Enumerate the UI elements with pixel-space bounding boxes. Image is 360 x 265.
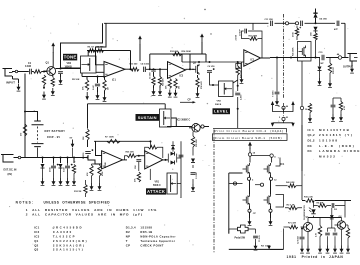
svg-text:2SK30A(GR): 2SK30A(GR) xyxy=(53,243,86,247)
resistor R2 xyxy=(42,75,45,85)
svg-text:R12 68K: R12 68K xyxy=(170,51,179,53)
ground sw col1 xyxy=(249,218,251,222)
svg-text:L.E.D (RED): L.E.D (RED) xyxy=(319,144,355,148)
wire D6 stub xyxy=(60,158,62,164)
wire right sub link xyxy=(333,97,341,99)
wire C5 down xyxy=(153,72,155,88)
resistor R37 xyxy=(318,204,327,208)
svg-text:JRC4558DD: JRC4558DD xyxy=(53,226,83,230)
svg-text:1S1588: 1S1588 xyxy=(319,139,339,143)
svg-text:2SC2240(GR): 2SC2240(GR) xyxy=(53,239,88,243)
svg-text:C11 1/50: C11 1/50 xyxy=(265,19,274,21)
wire IC2 fb outer xyxy=(242,31,263,58)
ground R25a xyxy=(99,183,101,187)
capacitor C20 xyxy=(300,237,305,239)
box pcb sw-1 xyxy=(213,134,288,141)
potentiometer VR3 LEVEL xyxy=(219,81,234,97)
svg-text:C5 1/50: C5 1/50 xyxy=(150,72,152,79)
svg-text:470: 470 xyxy=(19,133,22,136)
wire R16 stems xyxy=(197,75,199,90)
ground R35 xyxy=(340,114,342,118)
svg-text:R5 10K: R5 10K xyxy=(72,79,80,81)
label TONE xyxy=(63,54,77,61)
svg-text:R26 10K: R26 10K xyxy=(126,151,135,153)
resistor R11 xyxy=(131,68,139,72)
svg-text:(C ): (C ) xyxy=(112,79,116,82)
wire power bus xyxy=(14,157,88,159)
wire C21 stems xyxy=(328,228,336,232)
wire right col 181 xyxy=(180,141,182,198)
wire jack2 sleeve xyxy=(351,61,353,66)
svg-text:Pedal SW: Pedal SW xyxy=(235,238,246,240)
svg-text:R7 2.2M: R7 2.2M xyxy=(288,223,296,225)
node pin 6 xyxy=(233,182,236,185)
junction fb node xyxy=(150,140,152,142)
svg-text:UNLESS OTHERWISE SPECIFIED: UNLESS OTHERWISE SPECIFIED xyxy=(44,201,111,205)
node pin 5b xyxy=(260,183,263,186)
svg-text:CP: CP xyxy=(188,100,192,102)
wire U1b fb loop xyxy=(276,158,281,167)
capacitor C18 xyxy=(331,105,336,107)
svg-text:Q1: Q1 xyxy=(34,239,38,243)
node bus pin 1 xyxy=(295,22,298,25)
junction R18 bus xyxy=(237,61,239,63)
label LEVEL xyxy=(213,108,231,114)
svg-text:D1,2: D1,2 xyxy=(308,139,315,143)
wire D1 stems xyxy=(319,58,321,79)
svg-text:C6 1/50: C6 1/50 xyxy=(208,66,216,68)
svg-text:CHECK POINT: CHECK POINT xyxy=(140,243,163,247)
svg-text:D1,3,4: D1,3,4 xyxy=(126,226,136,230)
svg-text:EXT. DC. IN: EXT. DC. IN xyxy=(4,169,17,172)
wire U1d fb loop xyxy=(276,195,284,208)
label SUSTAIN xyxy=(136,114,160,121)
svg-text:4558D: 4558D xyxy=(104,162,107,168)
svg-text:1/50: 1/50 xyxy=(311,32,313,36)
resistor R4 xyxy=(51,78,54,87)
node CP arrow xyxy=(193,101,196,103)
wire C8 down xyxy=(138,162,140,171)
svg-text:1M: 1M xyxy=(107,87,109,90)
wire R36 stub xyxy=(85,180,87,197)
node bus pin 3 xyxy=(285,22,288,25)
svg-text:0.47/50: 0.47/50 xyxy=(82,153,85,159)
ground R14 xyxy=(169,90,171,94)
supply arrow Q1 collector xyxy=(52,45,54,53)
svg-text:NP: NP xyxy=(321,63,325,65)
capacitor C22 xyxy=(333,233,338,235)
junction C6 top xyxy=(209,61,211,63)
resistor R28 xyxy=(137,172,140,182)
wire U1d out xyxy=(276,185,288,187)
resistor R33 xyxy=(328,63,331,73)
junction power node D6 xyxy=(60,157,62,159)
wire R1 to Q1 base xyxy=(42,71,47,73)
junction feedback node stage1 xyxy=(130,68,132,70)
svg-text:D3: D3 xyxy=(308,144,312,148)
resistor R6 xyxy=(88,49,95,53)
junction C20 top xyxy=(301,228,303,230)
svg-text:4.7K: 4.7K xyxy=(315,232,318,237)
resistor R15 xyxy=(174,79,177,89)
wire pin13 stem xyxy=(283,109,285,111)
wire gate row 1 xyxy=(229,183,243,185)
transistor Q3 xyxy=(192,124,200,132)
junction diode node xyxy=(165,159,167,161)
ground Q6 xyxy=(341,246,343,250)
box around Q4 xyxy=(298,42,312,62)
ext dc jack xyxy=(1,155,14,163)
wire stage1 output xyxy=(125,68,133,70)
ground R15 xyxy=(175,90,177,94)
transistor Q5 xyxy=(303,222,312,231)
ground R33 xyxy=(329,80,331,84)
junction C8 node xyxy=(138,155,140,157)
svg-text:R31 100K: R31 100K xyxy=(293,47,295,56)
node pin 4 xyxy=(270,154,273,157)
diode D5b xyxy=(191,159,195,163)
node pin box IC2 xyxy=(236,64,241,69)
resistor R35 xyxy=(339,102,342,111)
wire Q1 output row xyxy=(56,68,81,70)
ground C22 xyxy=(334,246,336,250)
wire feedback bus stage1 xyxy=(87,50,131,52)
resistor R18 xyxy=(236,66,239,75)
wire rail to switch xyxy=(229,229,238,234)
svg-text:R16 47K: R16 47K xyxy=(200,81,203,89)
ground Q5 xyxy=(307,246,309,250)
svg-text:Q2: Q2 xyxy=(34,243,38,247)
node tip contact xyxy=(15,70,17,72)
svg-text:R12 1M: R12 1M xyxy=(74,191,82,193)
svg-text:Q1,2: Q1,2 xyxy=(308,133,316,137)
wire R46 stems xyxy=(347,225,349,246)
wire C14 stub xyxy=(67,158,69,164)
ground R34 xyxy=(309,115,311,119)
svg-text:Tantalume Capacitor: Tantalume Capacitor xyxy=(140,239,175,243)
wire C2 down xyxy=(60,74,62,77)
supply arrow into bus xyxy=(86,92,88,97)
capacitor C9 xyxy=(245,29,247,34)
wire bias box right xyxy=(205,54,207,62)
svg-text:50K B: 50K B xyxy=(215,104,222,106)
svg-text:R5 47K: R5 47K xyxy=(317,202,324,205)
wire CP row xyxy=(180,101,193,103)
wire C4 to IC1b xyxy=(146,68,168,70)
svg-text:NP: NP xyxy=(126,234,131,238)
wire bottom rail right xyxy=(283,229,285,250)
wire D3b stems xyxy=(172,141,174,151)
dash-dot board boundary left xyxy=(213,130,215,254)
svg-text:TL022CP: TL022CP xyxy=(53,234,76,238)
ground R13 xyxy=(159,88,161,92)
ground R2 xyxy=(43,92,45,96)
wire Q3 chain xyxy=(192,147,194,184)
svg-text:R17 10M: R17 10M xyxy=(249,36,258,38)
svg-text:CP: CP xyxy=(253,213,257,215)
node connector 12 xyxy=(300,106,303,109)
wire corner to TONE network xyxy=(61,23,103,68)
speck 1 xyxy=(204,9,205,10)
capacitor C16 T xyxy=(275,92,280,94)
wire R26 to IC3b xyxy=(136,155,144,157)
svg-text:IC1: IC1 xyxy=(281,163,285,166)
mosfet U1c xyxy=(243,194,250,206)
svg-text:C2 0.082: C2 0.082 xyxy=(297,236,299,244)
diode D1 clamp xyxy=(318,67,322,71)
svg-text:MC14007UB: MC14007UB xyxy=(319,128,350,132)
wire R3a top xyxy=(86,77,88,80)
resistor R3a xyxy=(85,80,88,91)
jfet Q2 xyxy=(192,64,199,75)
diode D4 lambda bottom xyxy=(313,27,317,31)
ground R41 xyxy=(73,178,75,182)
wire C13 stub xyxy=(53,158,55,164)
svg-text:2SA1015(Y): 2SA1015(Y) xyxy=(53,248,84,252)
diode D3b xyxy=(171,146,175,150)
op-amp IC3a xyxy=(102,151,123,169)
junction R2 foot xyxy=(43,87,45,89)
junction stage2 input node xyxy=(153,68,155,70)
ground output jack xyxy=(351,66,353,70)
resistor R24 xyxy=(90,165,93,176)
wire R18 column xyxy=(237,62,239,128)
resistor R1 xyxy=(34,70,42,74)
wire IC2 supply drop xyxy=(252,23,254,30)
svg-text:R33 1K: R33 1K xyxy=(333,67,335,74)
resistor R26 xyxy=(127,154,136,158)
supply arrow IC1a xyxy=(139,38,141,45)
op-amp IC1a xyxy=(104,62,125,78)
wire feedback drop to minus input xyxy=(96,51,105,65)
op-amp IC2 xyxy=(244,50,261,66)
node D4 bar xyxy=(313,12,317,14)
capacitor C13 xyxy=(51,164,59,168)
svg-text:From Circuit Board SW-1 (500B: From Circuit Board SW-1 (500B) xyxy=(215,136,282,140)
wire lower mid wire xyxy=(165,126,209,129)
wire sw col2 bottom xyxy=(270,206,272,218)
capacitor C3 xyxy=(95,84,100,86)
svg-text:R10 2.2K: R10 2.2K xyxy=(304,196,313,198)
led D3 indicator xyxy=(311,209,315,213)
capacitor C6 xyxy=(207,68,215,72)
wire C18 stems xyxy=(332,98,334,114)
svg-text:VR2: VR2 xyxy=(67,63,72,65)
resistor R8a xyxy=(103,80,106,91)
diode D4 lambda top xyxy=(313,13,317,17)
capacitor C12b xyxy=(301,21,303,26)
mosfet Q4 mute xyxy=(299,46,306,58)
wire Q3 emitter xyxy=(192,132,194,136)
svg-text:T: T xyxy=(126,239,128,243)
wire switch out xyxy=(248,229,255,234)
junction D4 col bus xyxy=(315,57,317,59)
junction D4 bus xyxy=(315,22,317,24)
battery B1 plates xyxy=(32,121,44,125)
svg-text:1 ALL RESISTER VALUES ARE: 1 ALL RESISTER VALUES ARE IN OHMS 1/4W ±… xyxy=(26,208,158,212)
junction input node xyxy=(43,71,45,73)
junction R13 xyxy=(159,68,161,70)
resistor R17 xyxy=(250,37,258,41)
wire C20 stems xyxy=(301,229,303,246)
wire R46 top xyxy=(344,201,346,218)
wire sw bottom rail xyxy=(229,248,284,250)
wire C14 lower xyxy=(67,163,69,178)
ground C20 xyxy=(301,246,303,250)
junction C2 tap xyxy=(60,68,62,70)
resistor R36 xyxy=(84,185,87,194)
resistor R30 xyxy=(295,28,298,36)
wire input row xyxy=(12,71,29,73)
ground C1 sw xyxy=(255,243,257,247)
wire Q5 emitter xyxy=(307,232,309,246)
svg-text:TONE: TONE xyxy=(64,55,77,60)
node pin 5 xyxy=(282,117,285,120)
resistor R32 xyxy=(314,33,317,40)
svg-text:R2 1.2K: R2 1.2K xyxy=(287,205,295,207)
svg-text:006P - 9V: 006P - 9V xyxy=(47,136,60,139)
ground D6 xyxy=(60,178,62,182)
svg-text:2SC1815 (Y): 2SC1815 (Y) xyxy=(319,133,353,137)
wire pot top to feedback xyxy=(87,51,89,57)
ground C18 xyxy=(332,114,334,118)
svg-text:VR1: VR1 xyxy=(155,182,160,184)
dashed battery link xyxy=(37,127,39,143)
resistor R47 xyxy=(289,206,298,210)
svg-text:C1 0.05: C1 0.05 xyxy=(259,235,261,242)
junction sub rail c3 xyxy=(97,76,99,78)
potentiometer VR2 TONE xyxy=(81,56,97,73)
resistor R42 xyxy=(288,184,296,188)
wire attack wiper xyxy=(177,183,181,185)
label ATTACK xyxy=(146,188,166,194)
svg-text:47/16: 47/16 xyxy=(291,32,294,37)
wire TONE wiper feed xyxy=(61,67,81,69)
output jack J2 xyxy=(348,54,358,62)
capacitor C15 NP xyxy=(322,55,324,61)
resistor R34 xyxy=(308,104,311,113)
svg-text:D2: D2 xyxy=(126,230,130,234)
diode D6 xyxy=(59,164,63,168)
wire IC3a out xyxy=(123,159,128,161)
mosfet U1a xyxy=(243,163,250,175)
wire second link xyxy=(314,205,346,207)
svg-text:1981 Printed in JAPAN: 1981 Printed in JAPAN xyxy=(287,255,344,259)
wire R30 stems xyxy=(296,26,298,40)
wire R2 lower xyxy=(43,85,45,89)
resistor R10b xyxy=(306,199,315,203)
wire fb drop to out xyxy=(189,54,191,69)
wire Q2 supply stem xyxy=(201,42,203,54)
wire C1 sw down xyxy=(255,239,257,243)
connector arrow up SW board xyxy=(249,145,251,149)
ground R8a xyxy=(104,94,106,98)
ground R13a xyxy=(153,88,155,92)
capacitor C4 xyxy=(144,67,146,72)
wire R8a stems xyxy=(104,77,106,95)
wire IC3b bias xyxy=(149,169,151,180)
svg-text:CA3080: CA3080 xyxy=(53,230,73,234)
wire sustain pot feed xyxy=(164,104,166,109)
node pin 3 mid xyxy=(201,125,204,128)
svg-text:RD5.1B: RD5.1B xyxy=(140,230,152,234)
ground stub 241 xyxy=(241,76,243,80)
svg-text:1/50: 1/50 xyxy=(135,165,137,169)
svg-text:R6 1K: R6 1K xyxy=(88,47,95,49)
svg-text:ATTACK: ATTACK xyxy=(147,189,165,194)
wire long node bus y62 xyxy=(182,61,244,63)
capacitor C10b xyxy=(235,93,240,95)
svg-text:47P: 47P xyxy=(334,28,338,31)
wire sw left rail xyxy=(229,173,243,234)
wire C13 lower xyxy=(53,163,55,178)
wire feedback riser stage1 xyxy=(130,51,132,70)
wire corner bottom xyxy=(270,248,284,250)
wire R27 loop xyxy=(145,147,163,158)
capacitor C1 xyxy=(30,69,32,74)
junction power node C14 xyxy=(67,157,69,159)
wire IC3b out xyxy=(163,159,169,161)
wire battery minus xyxy=(37,148,39,158)
resistor R40 xyxy=(23,124,26,136)
diode D1 xyxy=(171,152,175,156)
svg-text:R11 560: R11 560 xyxy=(130,64,139,66)
wire Q4 source xyxy=(301,61,303,200)
svg-text:2.2/50: 2.2/50 xyxy=(236,34,238,40)
wire D5 stub xyxy=(42,158,44,164)
wire col88 head xyxy=(87,104,89,129)
connector flag down 5-43 xyxy=(273,122,294,124)
wire Q5 collector xyxy=(308,218,342,223)
wire Q1 emitter xyxy=(52,75,54,77)
resistor R13a xyxy=(152,77,155,86)
wire sub rail drop xyxy=(81,73,83,77)
wire input node link xyxy=(92,163,102,165)
svg-text:IC3: IC3 xyxy=(34,234,39,238)
wire led column xyxy=(313,201,315,218)
dash-dot board boundary right xyxy=(283,14,285,99)
wire bias box left xyxy=(181,54,183,62)
resistor R14 xyxy=(168,79,171,89)
svg-text:DRY BATTERY: DRY BATTERY xyxy=(45,130,66,133)
ground R46 xyxy=(347,246,349,250)
wire D5 lower xyxy=(42,168,44,178)
wire diode loop xyxy=(168,154,181,163)
wire R42 to rail xyxy=(296,185,302,187)
svg-text:1 0.047: 1 0.047 xyxy=(195,171,198,179)
wire col88 to opamp xyxy=(88,155,102,164)
arrow onto rail xyxy=(267,246,271,250)
node pin 8 xyxy=(269,209,272,212)
wire D4b stems xyxy=(315,31,317,58)
wire pin5 stem xyxy=(283,121,285,123)
wire C1 to R1 xyxy=(32,71,34,73)
node pin 14 xyxy=(248,153,251,156)
wire jack sleeve to ground xyxy=(13,76,19,83)
pedal switch SW1 xyxy=(238,225,249,233)
capacitor C14 xyxy=(65,164,73,168)
svg-text:Print Circuit Board CD-4 (040: Print Circuit Board CD-4 (0404) xyxy=(215,129,284,133)
wire parts list rail xyxy=(301,125,303,171)
resistor R22 xyxy=(86,129,89,140)
wire Q1 collector to supply xyxy=(52,52,54,67)
junction power bus end xyxy=(87,157,89,159)
svg-text:IC 1: IC 1 xyxy=(308,128,315,132)
capacitor C8 xyxy=(136,160,141,162)
junction out bus b xyxy=(290,57,292,59)
capacitor C5 xyxy=(151,70,156,72)
svg-text:MA522: MA522 xyxy=(319,155,336,159)
